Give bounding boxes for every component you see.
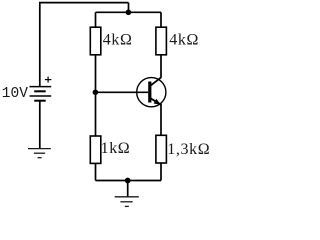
wire emitter to R4 top — [160, 104, 162, 136]
ground GND1 left — [28, 149, 51, 158]
wire second rail to R2 top — [160, 12, 162, 27]
wire base node to transistor base — [95, 91, 148, 93]
wire battery bottom to ground GND1 — [39, 101, 41, 148]
transistor Q1 collector diagonal — [151, 77, 162, 85]
svg-text:4kΩ: 4kΩ — [103, 32, 133, 49]
svg-text:1,3kΩ: 1,3kΩ — [167, 141, 210, 158]
wire second rail horizontal — [96, 11, 162, 13]
wire R2 bottom to collector — [160, 55, 162, 78]
wire R1 bottom to base node B — [95, 55, 97, 93]
battery plus sign — [45, 77, 52, 83]
node C junction dot — [125, 178, 131, 184]
resistor R1 — [90, 27, 101, 55]
wire R3 bottom to bottom rail — [95, 163, 97, 180]
ground GND2 bottom — [115, 197, 139, 207]
wire base node down to R3 top — [95, 92, 97, 136]
battery V1 plates — [30, 87, 52, 101]
transistor Q1 base bar — [148, 82, 151, 103]
node B junction dot — [93, 90, 99, 96]
wire top rail drop to node A — [128, 3, 130, 13]
transistor Q1 emitter arrowhead — [154, 99, 161, 105]
wire bottom rail horizontal — [96, 180, 162, 182]
resistor R3 — [90, 136, 101, 163]
wire second rail to R1 top — [95, 12, 97, 27]
svg-text:10V: 10V — [2, 86, 28, 102]
transistor Q1 emitter diagonal — [151, 98, 161, 104]
wire battery top to top rail corner — [39, 3, 41, 86]
transistor Q1 body circle — [137, 78, 166, 107]
wire node C to ground — [127, 181, 129, 197]
wire top rail horizontal — [39, 2, 129, 4]
resistor R4 — [156, 135, 167, 163]
svg-text:4kΩ: 4kΩ — [169, 32, 199, 49]
svg-text:1kΩ: 1kΩ — [101, 140, 131, 157]
resistor R2 — [156, 27, 167, 55]
node A junction dot — [126, 10, 132, 16]
wire R4 bottom to bottom rail — [160, 163, 162, 181]
